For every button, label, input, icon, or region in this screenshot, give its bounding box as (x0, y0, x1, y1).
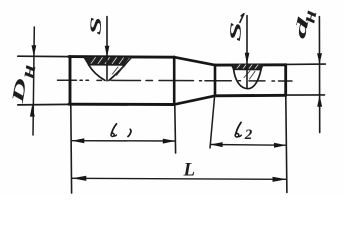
extension line top right (for d) (286, 63, 326, 65)
tube outline: small tube top edge (215, 63, 286, 66)
wall section right: inner wall line (234, 68, 261, 70)
svg-text:D: D (8, 77, 31, 106)
tube outline: large tube bottom edge (69, 103, 174, 106)
junction line between large tube and taper (173, 57, 176, 105)
dimension line l2 (210, 144, 286, 147)
arrow S (105, 46, 110, 57)
arrow l1 left (72, 138, 85, 143)
arrow L right (273, 177, 287, 182)
dimension line d (318, 17, 320, 133)
tube outline: small tube bottom edge (215, 94, 286, 97)
taper bottom edge (174, 96, 215, 105)
wall section left: right slant edge (125, 57, 132, 65)
wall section right: right slant edge (261, 64, 263, 70)
taper top edge (174, 57, 215, 65)
leader S line (106, 17, 108, 81)
wall section left: funnel left curve (89, 65, 105, 81)
wall section right: sparse hatch in cup (244, 71, 255, 79)
arrow d bottom (317, 95, 322, 107)
svg-text:L: L (183, 160, 196, 181)
svg-text:S: S (86, 16, 105, 35)
label l1 subscript 1 (comma-like) (128, 129, 131, 136)
wall section left: hatched band (84, 57, 132, 65)
extension line right for l1 (174, 106, 177, 154)
arrow d top (317, 53, 322, 64)
dimension line L (72, 178, 287, 179)
extension line bottom right (for d) (286, 94, 325, 96)
arrow D bottom (30, 105, 35, 117)
extension line left for l1 and L (70, 105, 73, 193)
junction line taper to small tube (214, 65, 217, 96)
wall section left: sparse hatch in funnel (113, 67, 123, 76)
label l2 (script ell) (236, 123, 241, 134)
centerline (dash-dot axis) (58, 79, 293, 82)
wall section right: hatched band (231, 64, 263, 70)
leader S1 line (246, 16, 248, 89)
wall section left: inner wall line (89, 64, 125, 66)
dimension line D (33, 27, 34, 135)
tube outline: small tube right end (284, 65, 287, 96)
arrow L left (72, 176, 86, 181)
wall section left: funnel right curve (109, 65, 125, 81)
extension line bottom left (for D) (18, 103, 69, 106)
arrow S1 (245, 53, 250, 64)
label S1 subscript 1 (240, 14, 244, 23)
arrow l2 right (274, 143, 286, 148)
svg-text:S: S (226, 21, 245, 42)
arrow l1 right (163, 139, 175, 144)
arrow l2 left (210, 142, 222, 147)
extension line right for l2 and L (286, 96, 287, 193)
label l1 (script ell) (112, 124, 117, 134)
wall section right: U cup curve (234, 69, 261, 88)
wall section left: left slant edge (84, 57, 89, 65)
dimension line l1 (72, 140, 175, 142)
extension line left for l2 (210, 96, 215, 148)
tube outline: large tube top edge (69, 55, 174, 59)
tube outline: large tube left end (69, 57, 72, 105)
wall section right: left slant edge (231, 65, 233, 70)
extension line top left (for D) (18, 55, 69, 57)
svg-text:2: 2 (244, 127, 253, 143)
arrow D top (32, 45, 37, 56)
